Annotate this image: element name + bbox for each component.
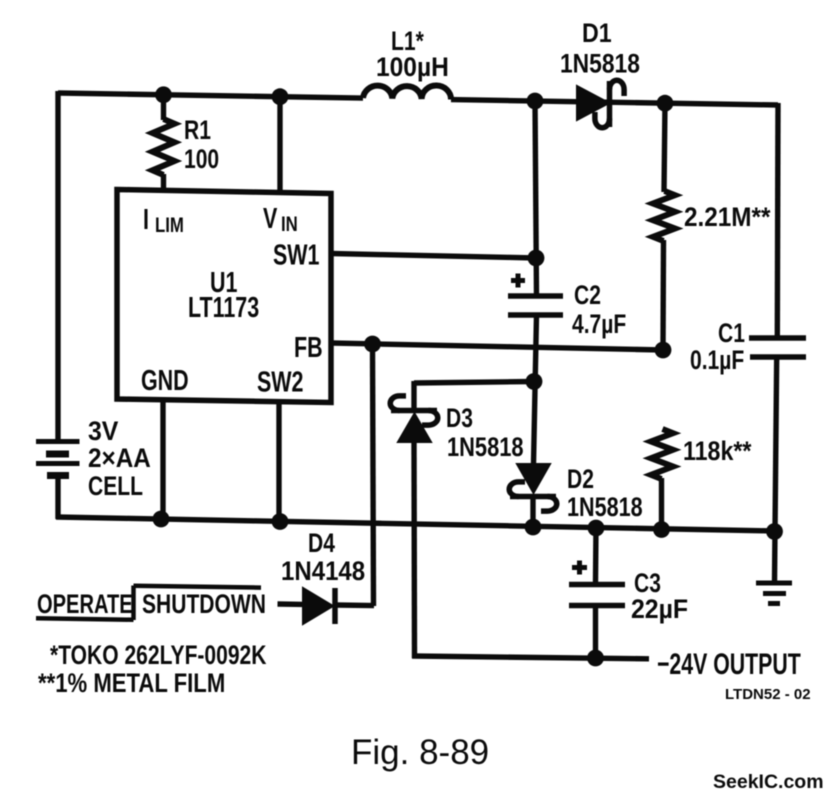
wire SW2 pin to rail xyxy=(276,403,281,523)
pin label VIN xyxy=(263,203,298,237)
svg-text:OPERATE: OPERATE xyxy=(37,589,133,620)
op-amp U1 box LT1173 xyxy=(117,190,331,403)
wire right vertical lower xyxy=(775,357,777,531)
node D1 out xyxy=(657,95,674,112)
wire -24V output rail xyxy=(412,656,649,659)
resistor 2.21M xyxy=(653,103,675,350)
svg-text:D2: D2 xyxy=(567,465,594,495)
inductor L1 xyxy=(363,86,451,100)
wire battery bottom to ground rail xyxy=(55,474,60,519)
svg-text:C1: C1 xyxy=(718,319,745,349)
svg-text:118k**: 118k** xyxy=(683,436,752,466)
plus sign C3 xyxy=(572,561,587,575)
svg-text:2×AA: 2×AA xyxy=(88,444,151,473)
diode D1 1N5818 xyxy=(577,80,624,128)
wire to ground symbol xyxy=(772,531,778,583)
wire VIN pin to top rail xyxy=(277,96,282,192)
svg-text:4.7µF: 4.7µF xyxy=(572,310,626,340)
node VIN top xyxy=(272,88,289,105)
wire FB rail xyxy=(331,343,663,350)
svg-text:LTDN52 - 02: LTDN52 - 02 xyxy=(725,686,811,703)
node FB/divider xyxy=(655,342,672,359)
node GND rail R1 xyxy=(153,511,170,528)
resistor R1 xyxy=(153,94,175,191)
svg-text:3V: 3V xyxy=(88,417,119,446)
plus sign C2 xyxy=(511,274,525,288)
svg-text:SeekIC.com: SeekIC.com xyxy=(713,771,824,793)
svg-text:FB: FB xyxy=(294,332,323,364)
svg-text:2.21M**: 2.21M** xyxy=(684,203,770,232)
svg-text:100µH: 100µH xyxy=(376,53,449,82)
operate/shutdown flag xyxy=(36,586,261,621)
node dots xyxy=(153,86,783,666)
wire right vertical upper to C1 xyxy=(775,103,781,338)
diode D2 1N5818 xyxy=(509,464,557,511)
node GND rail right xyxy=(766,523,783,540)
svg-text:V: V xyxy=(263,203,277,235)
wire C2 branch vertical upper xyxy=(535,101,537,296)
node SW1/C2 xyxy=(528,250,545,267)
svg-text:SW2: SW2 xyxy=(257,366,303,398)
svg-text:CELL: CELL xyxy=(88,472,143,502)
wire bottom ground rail xyxy=(56,517,775,531)
svg-text:*TOKO 262LYF-0092K: *TOKO 262LYF-0092K xyxy=(50,641,267,671)
capacitor C3 xyxy=(569,527,625,659)
pin label ILIM xyxy=(143,204,184,238)
svg-text:−24V OUTPUT: −24V OUTPUT xyxy=(657,646,801,681)
node GND rail C3 xyxy=(588,520,605,537)
node GND rail 118k xyxy=(653,521,670,538)
wire D3 branch horizontal xyxy=(414,382,534,384)
svg-text:1N5818: 1N5818 xyxy=(447,433,524,463)
wire C2 bottom to D2 xyxy=(534,315,537,464)
svg-text:I: I xyxy=(143,204,149,236)
svg-text:D4: D4 xyxy=(308,529,335,559)
svg-text:0.1µF: 0.1µF xyxy=(690,346,744,376)
svg-text:R1: R1 xyxy=(184,116,211,146)
node FB/D4 xyxy=(364,336,381,353)
wire GND pin to rail xyxy=(160,400,165,519)
wire D2 to ground rail xyxy=(530,497,535,528)
wire D3 vertical lower to -24V rail xyxy=(411,442,417,658)
diode D4 1N4148 xyxy=(278,588,375,624)
svg-text:IN: IN xyxy=(281,213,298,236)
svg-text:SW1: SW1 xyxy=(273,239,319,271)
node C3 -24V xyxy=(587,650,604,667)
svg-text:LIM: LIM xyxy=(155,214,184,237)
svg-text:D1: D1 xyxy=(582,18,612,48)
svg-text:100: 100 xyxy=(184,145,219,175)
svg-text:D3: D3 xyxy=(446,404,473,434)
svg-text:1N4148: 1N4148 xyxy=(281,557,365,587)
wire D3 vertical upper xyxy=(411,381,416,410)
battery 3V 2xAA xyxy=(36,442,80,476)
wire top rail left segment xyxy=(58,93,363,98)
svg-text:1N5818: 1N5818 xyxy=(567,493,643,523)
resistor 118k xyxy=(651,429,673,530)
node GND rail SW2 xyxy=(272,513,289,530)
wire D4 vertical from FB node xyxy=(373,344,374,606)
wire SW1 pin to C2 node xyxy=(331,254,536,259)
node L1 out xyxy=(527,93,544,110)
svg-text:C2: C2 xyxy=(574,281,601,311)
diode D3 1N5818 xyxy=(390,396,438,442)
node R1 top xyxy=(155,86,172,103)
capacitor C1 xyxy=(749,338,806,357)
svg-text:**1% METAL FILM: **1% METAL FILM xyxy=(38,669,225,699)
svg-text:22µF: 22µF xyxy=(631,595,688,624)
svg-text:SHUTDOWN: SHUTDOWN xyxy=(142,590,266,620)
wire left vertical to battery xyxy=(55,91,60,442)
node GND rail D2 xyxy=(525,519,542,536)
capacitor C2 xyxy=(508,296,563,315)
node D3 branch xyxy=(526,373,543,390)
ground xyxy=(756,583,792,604)
svg-text:LT1173: LT1173 xyxy=(188,292,259,324)
svg-text:1N5818: 1N5818 xyxy=(560,49,640,79)
wire top rail mid segment xyxy=(451,100,778,105)
svg-text:Fig. 8-89: Fig. 8-89 xyxy=(351,733,489,772)
svg-text:GND: GND xyxy=(141,365,189,397)
